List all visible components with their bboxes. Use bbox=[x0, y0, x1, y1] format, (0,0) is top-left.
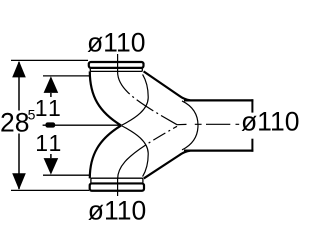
inner dim stub below up arrow bbox=[50, 93, 52, 97]
svg-text:ø110: ø110 bbox=[241, 106, 299, 136]
bottom extension line (overall dim, bottom) bbox=[11, 189, 89, 191]
mouth ellipse arc bbox=[182, 101, 198, 150]
centre line bottom bend axis (dash-dot) bbox=[118, 126, 177, 179]
bottom socket collar outer bbox=[90, 183, 144, 190]
pipe end tick bottom bbox=[251, 139, 253, 152]
bottom bend inner wall diagonal (thick) bbox=[144, 151, 190, 179]
outer dim arrow down bbox=[12, 173, 26, 190]
top bend inner wall diagonal (thick) bbox=[144, 71, 190, 100]
top socket collar lower rim bbox=[90, 68, 142, 72]
inner extension line top (11 dim) bbox=[43, 75, 90, 77]
pipe end tick top bbox=[251, 99, 253, 112]
centre marker blob bbox=[45, 122, 55, 127]
inner extension line bottom (11 dim) bbox=[43, 174, 89, 176]
svg-text:ø110: ø110 bbox=[87, 28, 145, 58]
outer dim arrow up bbox=[12, 61, 26, 78]
centre line top bend axis (dash-dot) bbox=[118, 72, 177, 125]
weld seam lower (thin) bbox=[121, 126, 148, 177]
weld seam upper (thin) bbox=[121, 74, 148, 125]
svg-text:11: 11 bbox=[35, 130, 63, 156]
inner dim stub above down arrow bbox=[50, 154, 52, 158]
outer dimension line 28.5 lower segment bbox=[18, 134, 20, 190]
centre leader line to cusp bbox=[43, 124, 121, 126]
inner dim arrow down bbox=[44, 158, 59, 175]
pipe top edge bbox=[184, 99, 253, 101]
bottom bend outer wall (thick) to cusp bbox=[90, 126, 121, 179]
centre line vertical bottom socket bbox=[117, 179, 119, 196]
top extension line (overall dim, top) bbox=[11, 59, 88, 61]
pipe bottom edge bbox=[184, 150, 253, 152]
centre line pipe horizontal (dash-dot) bbox=[177, 123, 239, 125]
inner dim arrow up bbox=[44, 76, 59, 93]
svg-text:28: 28 bbox=[0, 108, 29, 138]
svg-text:ø110: ø110 bbox=[88, 196, 146, 226]
top bend outer wall (thick) to cusp bbox=[90, 71, 121, 125]
bottom socket collar upper rim bbox=[91, 178, 143, 183]
top socket collar outer bbox=[89, 62, 144, 68]
centre line vertical top socket bbox=[117, 54, 119, 72]
svg-text:11: 11 bbox=[35, 95, 63, 121]
outer dimension line 28.5 upper segment bbox=[18, 62, 20, 111]
